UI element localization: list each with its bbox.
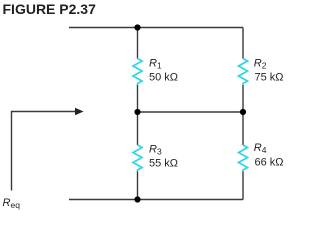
svg-text:FIGURE P2.37: FIGURE P2.37 <box>3 1 97 17</box>
svg-text:R: R <box>149 58 157 70</box>
svg-text:2: 2 <box>262 61 267 71</box>
svg-text:R: R <box>3 197 11 209</box>
svg-text:50 kΩ: 50 kΩ <box>149 72 178 84</box>
svg-text:eq: eq <box>11 200 21 210</box>
svg-text:R: R <box>149 144 157 156</box>
svg-text:R: R <box>254 58 262 70</box>
svg-text:3: 3 <box>157 147 162 157</box>
svg-text:1: 1 <box>157 61 162 71</box>
svg-text:R: R <box>254 142 262 154</box>
svg-text:66 kΩ: 66 kΩ <box>255 157 284 169</box>
svg-text:55 kΩ: 55 kΩ <box>149 158 178 170</box>
svg-text:75 kΩ: 75 kΩ <box>255 72 284 84</box>
svg-text:4: 4 <box>262 145 267 155</box>
